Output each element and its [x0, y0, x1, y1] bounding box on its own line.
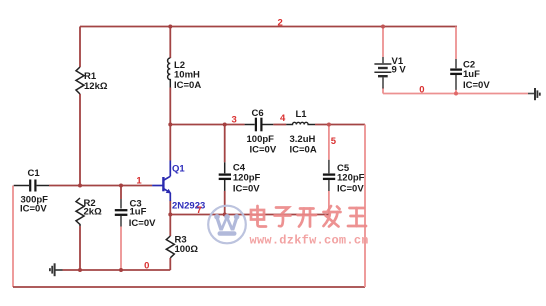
- watermark chinese char dian: [251, 206, 266, 227]
- svg-text:120pF: 120pF: [337, 173, 365, 184]
- wire Q1 emitter to net 7: [169, 201, 171, 215]
- svg-text:3: 3: [232, 115, 237, 126]
- wire C2 bottom stub: [455, 90, 457, 94]
- capacitor C3: [115, 199, 128, 227]
- svg-text:IC=0V: IC=0V: [233, 184, 260, 195]
- transistor Q1: [152, 161, 171, 202]
- wire C3 bottom to net 0: [120, 227, 122, 271]
- watermark chinese char fa: [324, 206, 341, 227]
- svg-text:C6: C6: [252, 108, 264, 119]
- junction node 2 at L2: [168, 25, 172, 29]
- resistor R2: [76, 198, 84, 226]
- capacitor C1: [14, 180, 49, 192]
- wire net 0 right horizontal: [383, 93, 528, 95]
- wire C4 bottom stub: [224, 191, 226, 215]
- svg-text:2kΩ: 2kΩ: [84, 207, 103, 218]
- wire V1 bottom vertical: [382, 88, 384, 94]
- wire R1 bottom to net 1: [79, 94, 81, 186]
- watermark logo circle: [208, 206, 246, 244]
- watermark chinese char wang: [348, 208, 366, 226]
- wire net 3 horizontal: [169, 124, 244, 126]
- svg-text:5: 5: [331, 136, 337, 147]
- wire net 7 horizontal: [170, 214, 329, 216]
- junction node 0 at C2 bottom: [454, 92, 458, 96]
- capacitor C6: [245, 118, 274, 132]
- wire feedback loop bottom horizontal: [13, 286, 365, 288]
- svg-text:Q1: Q1: [172, 164, 185, 175]
- capacitor C4: [219, 162, 231, 191]
- wire C5 top stub: [328, 125, 330, 160]
- wire C4 top stub: [224, 125, 226, 163]
- svg-text:3.2uH: 3.2uH: [290, 134, 316, 145]
- svg-text:7: 7: [197, 205, 202, 216]
- svg-text:0: 0: [419, 85, 424, 96]
- wire net 0 left horizontal: [63, 269, 171, 271]
- ground left: [50, 263, 63, 276]
- battery V1: [374, 57, 391, 89]
- wire C2 top vertical: [455, 27, 457, 60]
- junction node 0 at C3 bottom: [119, 268, 123, 272]
- svg-text:L1: L1: [296, 109, 308, 120]
- junction node 7 at emitter: [168, 213, 172, 217]
- svg-text:www.dzkfw.com.cn: www.dzkfw.com.cn: [250, 234, 369, 248]
- svg-text:9 V: 9 V: [392, 64, 407, 75]
- wire feedback loop right vertical: [364, 125, 366, 288]
- watermark chinese char kai: [298, 209, 317, 227]
- svg-text:IC=0V: IC=0V: [250, 145, 277, 156]
- junction node 0 at R2: [78, 268, 82, 272]
- svg-text:IC=0V: IC=0V: [337, 184, 364, 195]
- svg-text:10mH: 10mH: [174, 70, 200, 81]
- wire R2 bottom to net 0: [79, 226, 81, 270]
- wire R3 bottom to net 0: [169, 258, 171, 270]
- wire net 2 top horizontal: [80, 26, 457, 28]
- junction node 1 at C3: [119, 184, 123, 188]
- svg-text:120pF: 120pF: [233, 173, 261, 184]
- wire net 1 horizontal: [49, 185, 152, 187]
- wire L2 bottom to Q1 collector: [169, 88, 171, 161]
- watermark logo W: [214, 214, 239, 236]
- junction node 3 at collector: [168, 123, 172, 127]
- wire net 5 horizontal: [315, 124, 365, 126]
- resistor R1: [76, 67, 84, 94]
- resistor R3: [166, 236, 174, 258]
- svg-text:0: 0: [144, 261, 149, 272]
- capacitor C5: [323, 160, 335, 191]
- junction node 3 at C4: [223, 123, 227, 127]
- wire C3 top stub: [120, 186, 122, 200]
- svg-text:IC=0V: IC=0V: [129, 218, 156, 229]
- watermark chinese char zi: [275, 208, 291, 227]
- svg-text:C1: C1: [28, 168, 41, 179]
- junction node 2 at V1: [381, 25, 385, 29]
- svg-text:1: 1: [136, 176, 142, 187]
- svg-text:IC=0A: IC=0A: [290, 145, 317, 156]
- svg-text:2: 2: [278, 18, 283, 29]
- svg-text:IC=0A: IC=0A: [174, 80, 201, 91]
- wire feedback loop left vertical: [12, 186, 14, 288]
- inductor L2: [168, 58, 171, 88]
- svg-text:1uF: 1uF: [130, 207, 147, 218]
- svg-text:IC=0V: IC=0V: [463, 80, 490, 91]
- wire R1 top stub: [79, 27, 81, 68]
- svg-text:100pF: 100pF: [247, 134, 275, 145]
- junction node 1 at R1: [78, 184, 82, 188]
- svg-text:1uF: 1uF: [463, 69, 480, 80]
- wire net 4 segment: [273, 124, 286, 126]
- wire C5 bottom stub: [328, 191, 330, 215]
- ground right: [528, 88, 540, 100]
- junction node 7 at C4 bottom: [223, 213, 227, 217]
- svg-text:4: 4: [280, 113, 286, 124]
- wire V1 top vertical: [382, 27, 384, 58]
- svg-text:IC=0V: IC=0V: [20, 204, 47, 215]
- junction node 5 at C5: [327, 123, 331, 127]
- wire L2 top stub: [169, 27, 171, 59]
- inductor L1: [286, 122, 315, 124]
- svg-text:12kΩ: 12kΩ: [84, 81, 108, 92]
- svg-text:100Ω: 100Ω: [175, 244, 199, 255]
- wire net 7 to R3: [169, 215, 171, 237]
- capacitor C2: [450, 59, 462, 90]
